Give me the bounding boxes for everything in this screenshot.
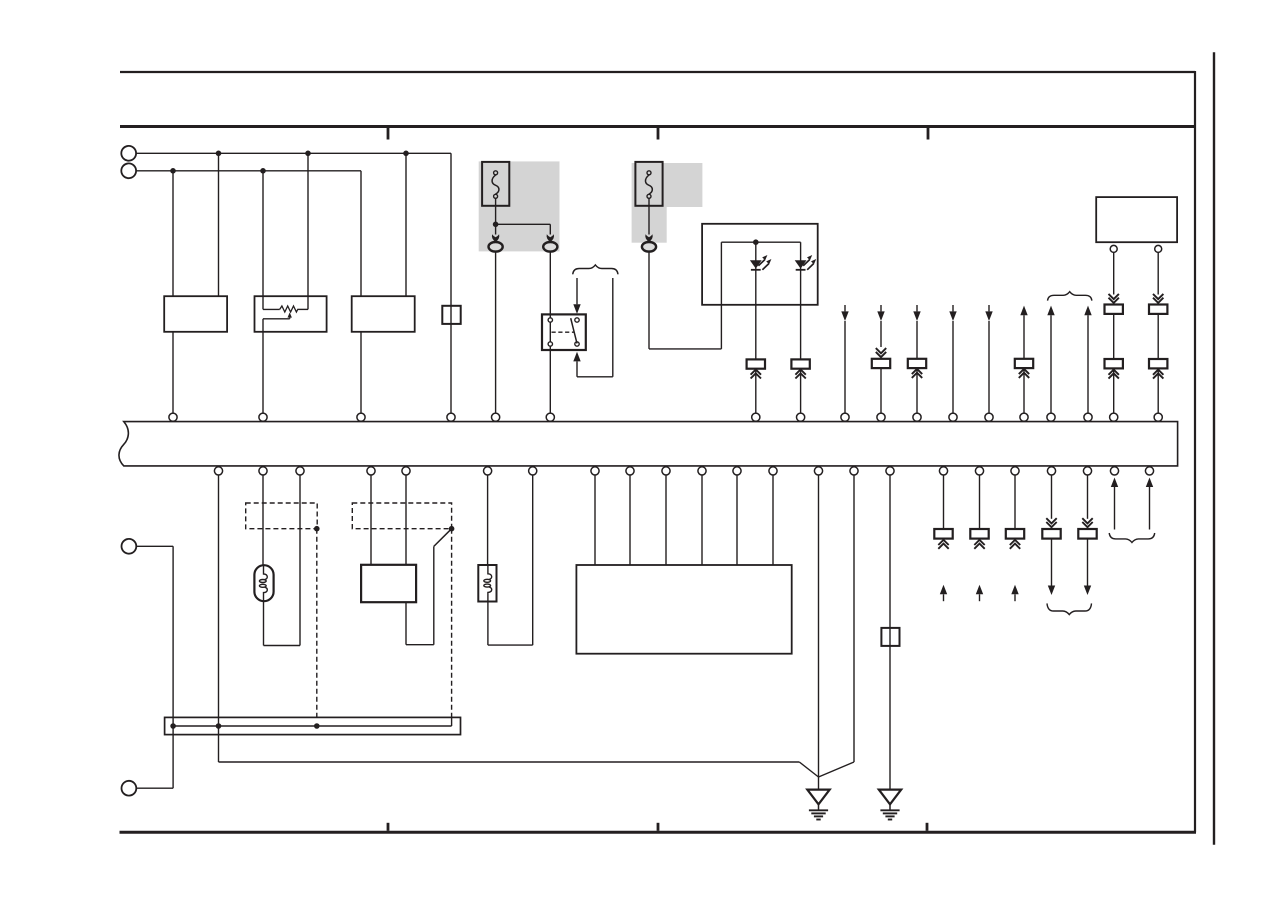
shield dashed box S1 — [246, 503, 318, 529]
ECU bottom pin x1114 — [1110, 467, 1118, 475]
connector J2 — [791, 359, 809, 368]
top border tick 2 — [657, 128, 660, 140]
bottom border tick 1 — [387, 823, 390, 831]
connector socket A2 — [543, 242, 557, 252]
wire into ground G1 — [818, 777, 820, 790]
junction U1 feed — [753, 239, 759, 245]
ECU top pin x800 — [797, 413, 805, 421]
page outer right border — [1213, 52, 1215, 845]
ECU bottom pin x1087 — [1083, 467, 1091, 475]
wire x989 to ECU pin — [988, 321, 990, 413]
page header bottom border line — [120, 125, 1195, 128]
wire A3 to LED module — [649, 242, 721, 349]
ECU bottom pin x218 — [214, 467, 222, 475]
module M5 — [576, 565, 791, 654]
wire ECU pin to M5 x630 — [629, 475, 631, 565]
wire M2 to ECU pin — [262, 332, 264, 414]
junction strip x316 — [314, 723, 320, 729]
ECU top pin x550 — [546, 413, 554, 421]
wire rail 1 — [136, 153, 451, 305]
junction on rail 1 at x308 — [305, 151, 311, 157]
inline component Z1 — [442, 306, 460, 324]
output arrow x1024 — [1020, 306, 1027, 359]
ground strip shield — [165, 717, 461, 734]
wire SW1 return loop — [577, 278, 613, 377]
top border tick 3 — [927, 128, 930, 140]
wire ECU pin x890 to ground — [889, 475, 891, 790]
node B+ terminal 1 — [121, 146, 136, 161]
wire M4 pin1 chain with connectors J6 J7 — [1105, 252, 1123, 413]
wire J4 to ECU pin — [916, 368, 918, 413]
page bottom border line — [120, 831, 1197, 834]
wire D2 to connector — [800, 270, 802, 360]
ECU bottom pin x854 — [850, 467, 858, 475]
ECU top pin x953 — [949, 413, 957, 421]
switch SW1 lever — [571, 318, 577, 343]
ECU bottom pin x1149 — [1145, 467, 1153, 475]
sensor input connector chain x979 — [970, 475, 988, 601]
fuse F1 — [482, 162, 509, 206]
ECU top pin x989 — [985, 413, 993, 421]
ECU bottom pin x630 — [626, 467, 634, 475]
output arrow x1051 — [1047, 306, 1054, 414]
brace harness SW1 — [573, 265, 618, 274]
switch SW1 mechanical link — [552, 331, 574, 333]
fuse F2 — [635, 162, 662, 206]
ECU bottom pin x487 — [484, 467, 492, 475]
ECU bottom pin x890 — [886, 467, 894, 475]
top border tick 1 — [387, 128, 390, 140]
module M1 — [164, 296, 227, 332]
input arrow x881 — [877, 305, 884, 321]
ECU bottom pin x300 — [296, 467, 304, 475]
lamp L1 bulb — [254, 565, 273, 601]
bottom border tick 3 — [926, 823, 929, 831]
signal arrow to ECU x1114 — [1111, 478, 1118, 530]
relay K1 coil box — [361, 565, 416, 602]
wire M3 to ECU pin — [360, 332, 362, 414]
module M4 pin 1 — [1110, 245, 1117, 252]
brace harness outputs — [1048, 292, 1092, 301]
ECU top pin x1113 — [1110, 413, 1118, 421]
shield chevrons J2 — [795, 370, 805, 379]
wire E1-E2 vertical — [172, 546, 174, 788]
module M3 — [352, 296, 415, 332]
ECU bottom pin x406 — [402, 467, 410, 475]
wire x881 — [880, 321, 882, 347]
connector J4 — [908, 359, 926, 368]
wire rail2 to box M2 — [262, 171, 264, 296]
wire F1 branch — [496, 224, 551, 234]
bottom border tick 2 — [657, 823, 660, 831]
switch SW2 lever — [434, 529, 452, 547]
wire ECU pin to coil T1 — [487, 475, 489, 565]
junction on rail 1 at x406 — [403, 151, 409, 157]
wire rail2 to box M1 — [172, 171, 174, 296]
junction S2 — [449, 526, 455, 532]
wire coil return — [488, 475, 533, 645]
wire fuse F1 output — [495, 198, 497, 224]
connector socket A1 — [489, 242, 503, 252]
switch SW1 contact d — [575, 342, 579, 346]
ECU main board band — [119, 422, 1178, 466]
ECU top pin x881 — [877, 413, 885, 421]
wire ECU pin to M5 x595 — [594, 475, 596, 565]
junction on rail 2 at x173 — [170, 168, 176, 174]
wire A1 to ECU pin — [495, 252, 497, 414]
wire E2 — [136, 787, 173, 789]
LED D1 — [750, 242, 772, 270]
page right inner border — [1194, 71, 1196, 832]
ECU top pin x1051 — [1047, 413, 1055, 421]
ECU bottom pin x979 — [975, 467, 983, 475]
input arrow x989 — [985, 305, 992, 321]
signal arrow out of SW1 — [573, 352, 580, 377]
coil T1 box — [478, 565, 496, 602]
node E1 terminal — [121, 539, 136, 554]
lamp L1 filament — [259, 565, 267, 601]
coil T1 winding — [484, 565, 492, 602]
ECU bottom pin x1015 — [1011, 467, 1019, 475]
shield chevrons J4 — [912, 369, 922, 378]
ECU top pin x755 — [752, 413, 760, 421]
fuse F2 connector shading — [632, 163, 703, 243]
junction fuse F1 split — [493, 222, 499, 228]
shield chevrons J5 — [1019, 369, 1029, 378]
wire J2 to ECU pin — [800, 369, 802, 414]
input arrow x953 — [949, 305, 956, 321]
LED module U1 outline — [702, 224, 818, 305]
shield chevrons x881 — [876, 348, 886, 357]
ECU top pin x845 — [841, 413, 849, 421]
inline component Z2 — [881, 628, 899, 646]
connector pin A3 — [645, 234, 652, 242]
ground G1 — [807, 790, 829, 820]
rheostat R1 module M2 outline — [255, 296, 327, 332]
wire ECU pin x818 to ground — [818, 475, 820, 777]
connector J3 — [872, 359, 890, 368]
ECU bottom pin x773 — [769, 467, 777, 475]
rheostat R1 element — [263, 296, 308, 312]
junction on rail 2 at x263 — [260, 168, 266, 174]
LED D2 — [795, 242, 817, 270]
signal arrow to ECU x1149 — [1146, 478, 1153, 530]
ECU bottom pin x818 — [814, 467, 822, 475]
node E2 terminal — [121, 781, 136, 796]
wire rail1 to box M1 — [218, 153, 220, 296]
ground G2 — [879, 790, 901, 820]
wire ground merge left — [799, 762, 818, 777]
ECU top pin x1088 — [1084, 413, 1092, 421]
junction on rail 1 at x218 — [216, 151, 222, 157]
wire J1 to ECU pin — [755, 369, 757, 414]
wire fuse F2 output — [648, 198, 650, 234]
ECU bottom pin x532 — [529, 467, 537, 475]
wire x845 to ECU pin — [844, 321, 846, 413]
shield chevrons J1 — [751, 370, 761, 379]
wire ECU pin to lamp — [262, 475, 264, 565]
wire D1 to connector — [755, 270, 757, 360]
input arrow x845 — [841, 305, 848, 321]
ECU bottom pin x595 — [591, 467, 599, 475]
ECU top pin x1158 — [1154, 413, 1162, 421]
switch SW1 pole wire — [549, 314, 551, 350]
brace harness right — [1109, 533, 1155, 543]
switch SW1 contact b — [548, 342, 552, 346]
brace harness bottom — [1047, 603, 1092, 614]
wire Z1 to ECU pin — [450, 324, 452, 413]
switch SW1 outline — [542, 314, 586, 350]
ECU bottom pin x1051 — [1047, 467, 1055, 475]
wire M4 pin2 chain with connectors J8 J9 — [1149, 252, 1167, 413]
wire ECU pins to relay K1 — [371, 475, 406, 565]
junction strip x173 — [170, 723, 176, 729]
output arrow x1088 — [1084, 306, 1091, 414]
wire A2 to switch SW1 — [549, 252, 551, 315]
wire rail1 to box M3 — [405, 153, 407, 296]
ECU top pin x1024 — [1020, 413, 1028, 421]
wire ECU pin to M5 x773 — [772, 475, 774, 565]
wire ECU pin to M5 x666 — [665, 475, 667, 565]
ground strip conductor — [173, 717, 452, 726]
wire ground rail — [219, 475, 800, 762]
signal arrow into SW1 — [573, 278, 580, 314]
wire M1 to ECU pin — [172, 332, 174, 414]
ECU top pin x361 — [357, 413, 365, 421]
ECU top pin x263 — [259, 413, 267, 421]
ECU bottom pin x666 — [662, 467, 670, 475]
wire ECU pin to M5 x702 — [701, 475, 703, 565]
ECU bottom pin x943 — [939, 467, 947, 475]
connector pin A2 — [547, 234, 554, 242]
sensor output connector chain x1051 — [1042, 475, 1060, 595]
ECU bottom pin x371 — [367, 467, 375, 475]
wire J3 to ECU pin — [880, 368, 882, 413]
junction strip x218 — [216, 723, 222, 729]
input arrow x917 — [913, 305, 920, 321]
sensor input connector chain x943 — [934, 475, 952, 601]
wire rail 2 — [136, 171, 361, 296]
ECU bottom pin x263 — [259, 467, 267, 475]
wire ECU pin to M5 x737 — [736, 475, 738, 565]
wire rail1 to box M2 — [307, 153, 309, 296]
wire x953 to ECU pin — [952, 321, 954, 413]
ECU top pin x917 — [913, 413, 921, 421]
wire relay K1 output — [406, 546, 434, 644]
ECU top pin x173 — [169, 413, 177, 421]
sensor output connector chain x1087 — [1078, 475, 1096, 595]
switch SW1 contact a — [548, 318, 552, 322]
wire ECU pin x854 to ground — [819, 475, 855, 777]
wire x917 — [916, 321, 918, 359]
connector socket A3 — [642, 242, 656, 252]
wire lamp return — [264, 475, 301, 646]
junction S1 — [314, 526, 320, 532]
connector pin A1 — [492, 234, 499, 242]
switch SW1 contact c — [575, 318, 579, 322]
ECU top pin x451 — [447, 413, 455, 421]
ECU bottom pin x702 — [698, 467, 706, 475]
shield drain wire S2 dashed — [451, 529, 453, 718]
wire J5 to ECU pin — [1023, 368, 1025, 413]
fuse F1 connector shading — [479, 161, 560, 251]
connector J5 — [1015, 359, 1033, 368]
sensor input connector chain x1015 — [1006, 475, 1024, 601]
wire E1 — [136, 545, 173, 547]
module M4 — [1096, 197, 1177, 242]
shield dashed box S2 — [352, 503, 451, 529]
connector J1 — [747, 359, 765, 368]
wire U1 internal feed — [721, 241, 800, 243]
shield drain wire S1 dashed — [316, 529, 318, 718]
ECU top pin x495 — [492, 413, 500, 421]
page header top border line — [120, 71, 1195, 73]
wire SW1 to ECU pin — [549, 350, 551, 413]
rheostat R1 wiper arrow — [263, 312, 292, 331]
ECU bottom pin x737 — [733, 467, 741, 475]
module M4 pin 2 — [1155, 245, 1162, 252]
node B+ terminal 2 — [121, 163, 136, 178]
